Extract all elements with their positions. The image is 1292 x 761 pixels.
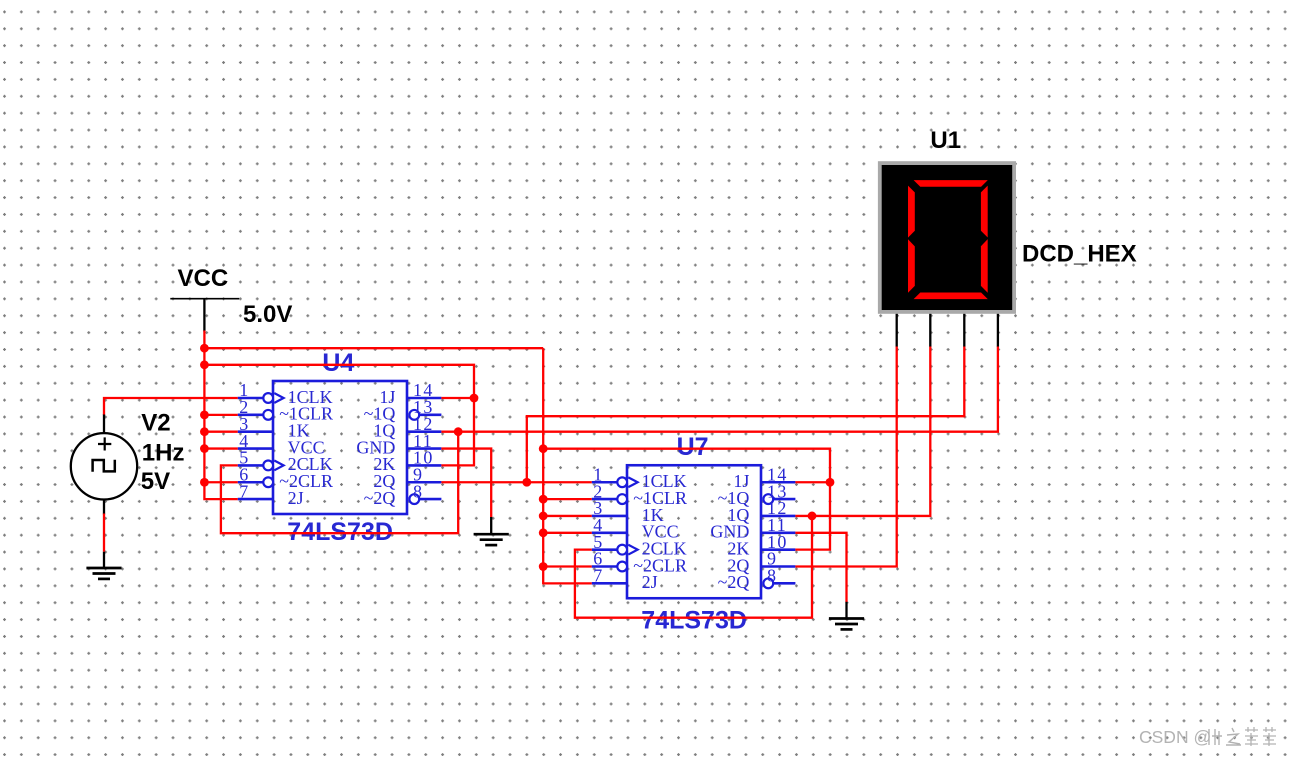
U4 pin 13 (~1Q) — [364, 397, 442, 424]
U1 segment d — [914, 293, 988, 300]
U1 pins (4 leads) — [897, 314, 998, 347]
U7 pin 11 (GND) — [710, 515, 795, 542]
U4 pin 3 (1K) — [238, 414, 310, 441]
svg-text:CSDN @: CSDN @ — [1139, 727, 1211, 747]
wire V2 bottom to ground — [103, 514, 105, 568]
U7 pin 2 (~1CLR) — [592, 481, 687, 508]
wire U7 2Q to display pin1 — [795, 347, 896, 567]
U4 pin 7 (2J) — [238, 481, 304, 508]
U7 pin 1 (1CLK) — [592, 464, 687, 491]
junction U7-1Q — [808, 512, 817, 521]
U4 pin 11 (GND) — [356, 431, 441, 458]
svg-text:DCD_HEX: DCD_HEX — [1022, 240, 1137, 267]
junction U7bus-pin2 — [539, 495, 548, 504]
power symbol VCC — [170, 265, 239, 331]
wire VCC bus to U4 pin6 — [204, 481, 237, 483]
wire U7 1Q to display pin2 — [795, 347, 930, 516]
junction bus-pin6 — [200, 478, 209, 487]
U7 pin 12 (1Q) — [727, 498, 795, 525]
wire U7 GND to ground — [795, 533, 846, 603]
svg-text:U1: U1 — [930, 127, 961, 154]
U7 pin 10 (2K) — [727, 532, 795, 559]
U1 segment b — [981, 186, 988, 238]
wire U4 1Q to U4 2CLK loop — [221, 432, 458, 534]
svg-text:2J: 2J — [642, 572, 658, 592]
U4 pin 8 (~2Q) — [364, 481, 442, 508]
svg-text:V2: V2 — [141, 409, 170, 436]
U1 segment f — [908, 186, 915, 238]
wire VCC bus to U4 pin2 — [204, 414, 237, 416]
svg-text:1Hz: 1Hz — [142, 439, 185, 466]
wire VCC to U4 1J/2K — [204, 365, 474, 466]
label 74LS73D (U7) — [641, 606, 747, 634]
wire U7 bus to U7 pin6 — [543, 565, 592, 567]
svg-text:VCC: VCC — [178, 265, 229, 292]
label DCD_HEX — [1022, 240, 1137, 267]
wire VCC bus to U4 pin4 — [204, 447, 237, 449]
junction U4-2Q — [522, 478, 531, 487]
svg-text:5.0V: 5.0V — [243, 301, 292, 328]
svg-text:2J: 2J — [288, 488, 304, 508]
U4 pin 4 (VCC) — [238, 431, 325, 458]
wire V2 to U4 1CLK — [104, 398, 238, 415]
svg-text:U7: U7 — [677, 433, 709, 461]
svg-text:8: 8 — [767, 566, 777, 586]
wire VCC bus vertical to U4 pin7 — [204, 331, 237, 500]
svg-text:U4: U4 — [322, 349, 354, 377]
U7 pin 7 (2J) — [592, 566, 658, 593]
ground stem (U4) — [490, 517, 492, 534]
ground (V2) — [86, 568, 121, 579]
U7 pin 6 (~2CLR) — [592, 549, 687, 576]
value label 5.0V — [243, 301, 292, 328]
U1 segment c — [981, 239, 988, 293]
U7 pin 8 (~2Q) — [718, 566, 796, 593]
junction U7bus-pin6 — [539, 562, 548, 571]
wire VCC to U7 1J/2K — [543, 449, 830, 550]
IC U4 74LS73D body — [273, 381, 407, 514]
U4 pin 5 (2CLK) — [238, 448, 333, 475]
U4 pin 6 (~2CLR) — [238, 464, 333, 491]
wire VCC bus to U4 pin3 — [204, 431, 237, 433]
junction bus-pin3 — [200, 427, 209, 436]
svg-text:74LS73D: 74LS73D — [641, 606, 747, 634]
U7 pin 14 (1J) — [733, 464, 795, 491]
source V2 (1Hz 5V square-wave) — [71, 414, 137, 515]
junction U7bus-pin4 — [539, 528, 548, 537]
junction bus-364 — [200, 360, 209, 369]
wire U4 1Q to display pin4 — [441, 347, 998, 432]
svg-text:7: 7 — [239, 481, 249, 501]
wire U4 GND to ground — [441, 449, 491, 518]
svg-text:~2Q: ~2Q — [364, 488, 396, 508]
display U1 DCD_HEX seven-segment — [878, 161, 1016, 314]
wire U4 1J stub join — [441, 397, 474, 399]
svg-text:8: 8 — [413, 481, 423, 501]
wire U4 2Q to U7 1CLK — [441, 481, 591, 483]
wire U7 bus to U7 pin4 — [543, 532, 592, 534]
wire VCC feed to U7 bus — [204, 347, 543, 349]
U7 pin 4 (VCC) — [592, 515, 679, 542]
value labels V2 1Hz 5V — [141, 409, 185, 495]
U4 pin 9 (2Q) — [373, 464, 441, 491]
wire U7 1Q to U7 2CLK loop — [575, 516, 812, 618]
svg-text:7: 7 — [593, 566, 603, 586]
junction U4-1Q — [454, 427, 463, 436]
wire U4 2Q to display pin3 — [527, 347, 965, 483]
junction U7bus-pin3 — [539, 512, 548, 521]
junction bus-pin2 — [200, 410, 209, 419]
U1 segment a — [914, 180, 988, 187]
U4 pin 14 (1J) — [379, 380, 441, 407]
label U4 — [322, 349, 354, 377]
U7 pin 3 (1K) — [592, 498, 664, 525]
U1 segment e — [908, 239, 915, 293]
wire U7 bus to U7 pin3 — [543, 515, 592, 517]
junction U7bus-448 — [539, 444, 548, 453]
label U1 — [930, 127, 961, 154]
U7 pin 9 (2Q) — [727, 549, 795, 576]
U4 pin 12 (1Q) — [373, 414, 441, 441]
wire U7 1J stub join — [795, 481, 830, 483]
wire U7 VCC bus vertical to U7 pin7 — [543, 348, 592, 583]
svg-text:5V: 5V — [141, 468, 170, 495]
U7 pin 13 (~1Q) — [718, 481, 796, 508]
wire U7 bus to U7 pin2 — [543, 498, 592, 500]
IC U7 74LS73D body — [627, 465, 761, 598]
label U7 — [677, 433, 709, 461]
U4 pin 1 (1CLK) — [238, 380, 333, 407]
U4 pin 10 (2K) — [373, 448, 441, 475]
junction bus-pin4 — [200, 444, 209, 453]
label 74LS73D (U4) — [287, 518, 393, 546]
junction U4-1J — [470, 394, 479, 403]
U7 pin 5 (2CLK) — [592, 532, 687, 559]
U4 pin 2 (~1CLR) — [238, 397, 333, 424]
junction bus-348 — [200, 344, 209, 353]
svg-text:~2Q: ~2Q — [718, 572, 750, 592]
ground stem (U7) — [845, 602, 847, 619]
junction U7-1J — [826, 478, 835, 487]
ground (U7) — [829, 619, 864, 630]
ground (U4) — [474, 534, 509, 545]
